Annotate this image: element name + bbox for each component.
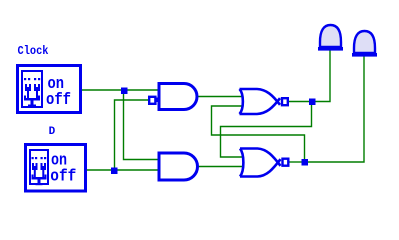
wire: NOR2 junction to probe2 [304, 55, 364, 162]
wire: AND2 output to NOR2 lower input [196, 166, 242, 168]
S1 icon left plug [25, 84, 31, 99]
U1 input bubble (square) [149, 97, 155, 104]
switch S2 (D) [26, 145, 86, 192]
switch S1 (Clock) [18, 66, 81, 113]
S2 icon right plug [41, 163, 47, 177]
svg-text:off: off [50, 167, 76, 186]
wire: clock branch down from junction [124, 92, 160, 160]
S1 outer box [18, 66, 81, 113]
node: clock junction [121, 88, 128, 95]
probe LED P1 [318, 25, 343, 51]
wire: NOR1 junction to probe1 [312, 49, 330, 102]
S1 icon dots [24, 78, 40, 80]
wire: Clock switch to AND1 top input [82, 89, 159, 91]
node: D junction [111, 168, 118, 175]
U4 output bubble (square) [283, 159, 289, 166]
wire: D switch to AND2 lower input [86, 169, 159, 171]
node: NOR1 output junction [309, 99, 316, 106]
AND gate U2 (bottom) [159, 153, 198, 180]
S2 icon left plug [32, 163, 38, 177]
S1 icon crossbar and stem [24, 96, 40, 108]
wire: NOR1 bubble to junction [288, 101, 312, 103]
node: NOR2 output junction [302, 159, 309, 166]
NOR gate U4 (bottom) [240, 149, 288, 177]
probe LED P2 [352, 31, 377, 57]
svg-text:off: off [46, 90, 71, 109]
svg-text:Clock: Clock [18, 45, 49, 58]
S1 icon right plug [34, 84, 40, 99]
wire: AND1 output to NOR1 top input [196, 96, 242, 98]
wire: NOR2 feedback to NOR1 lower input [212, 106, 305, 159]
S1 icon box [22, 71, 42, 107]
S2 outer box [26, 145, 86, 192]
U1 input bubble stub [155, 98, 159, 103]
S2 icon box [30, 150, 48, 184]
U3 output bubble (square) [282, 98, 288, 105]
S2 icon crossbar and stem [32, 175, 47, 186]
wire: NOR1 feedback to NOR2 top input [221, 104, 312, 157]
NOR gate U3 (top) [240, 89, 288, 114]
AND gate U1 (top, inverted lower input) [149, 84, 197, 110]
wire: NOR2 bubble to junction [289, 161, 304, 163]
svg-text:D: D [49, 126, 56, 138]
wire: D branch up from junction to AND1 bubble input [115, 100, 150, 168]
S2 icon dots [32, 157, 47, 159]
